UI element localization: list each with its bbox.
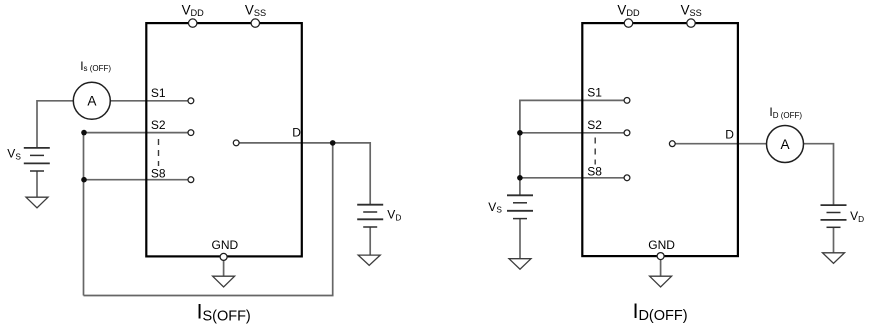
svg-text:S8: S8 — [151, 167, 166, 181]
svg-text:S1: S1 — [151, 86, 166, 100]
svg-text:S2: S2 — [151, 118, 166, 132]
svg-text:D: D — [292, 126, 301, 140]
svg-text:S2: S2 — [587, 118, 602, 132]
svg-text:GND: GND — [212, 238, 239, 252]
svg-text:VSS: VSS — [245, 3, 266, 19]
svg-text:VDD: VDD — [617, 3, 640, 19]
svg-text:ID (OFF): ID (OFF) — [769, 105, 802, 120]
svg-text:VD: VD — [850, 209, 864, 224]
svg-text:VDD: VDD — [182, 3, 205, 19]
svg-text:A: A — [781, 137, 791, 152]
svg-text:VD: VD — [387, 207, 401, 222]
svg-text:VS: VS — [488, 200, 502, 215]
svg-text:GND: GND — [648, 238, 675, 252]
svg-text:ID(OFF): ID(OFF) — [633, 300, 688, 324]
svg-text:D: D — [725, 127, 734, 141]
svg-text:S1: S1 — [587, 86, 602, 100]
svg-text:VSS: VSS — [681, 3, 702, 19]
svg-text:VS: VS — [7, 147, 21, 162]
svg-text:S8: S8 — [587, 165, 602, 179]
svg-text:A: A — [87, 94, 97, 109]
svg-text:Is (OFF): Is (OFF) — [80, 59, 111, 73]
svg-text:IS(OFF): IS(OFF) — [197, 300, 251, 324]
